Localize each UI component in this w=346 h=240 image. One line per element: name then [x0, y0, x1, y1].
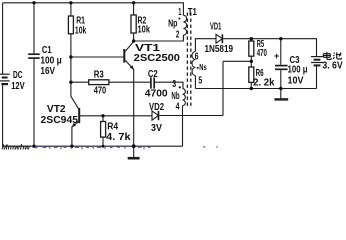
wire R5 R6 junction [250, 56, 252, 67]
transformer T1 winding Ns [192, 52, 195, 76]
svg-text:VD2: VD2 [149, 102, 164, 113]
label battery chinese 电池 [323, 52, 341, 60]
node dots [32, 1, 282, 148]
svg-text:VD1: VD1 [210, 22, 222, 33]
svg-text:Ns: Ns [199, 63, 207, 72]
svg-text:1: 1 [178, 7, 181, 18]
wire bottom rail [3, 145, 183, 147]
ground at C3 [274, 89, 288, 100]
diode VD2 [152, 111, 159, 120]
svg-text:5: 5 [198, 76, 202, 87]
capacitor C2 [151, 77, 154, 88]
wire VT2 base [80, 115, 152, 117]
wire R3 to C2 [109, 81, 150, 83]
wire R5 top lead [250, 39, 252, 41]
wire Ns pin6 to VD1 [195, 39, 216, 52]
svg-text:3. 6V: 3. 6V [322, 60, 343, 71]
wire VT1 base [71, 56, 124, 58]
transistor VT1 [124, 42, 134, 70]
svg-text:4700: 4700 [145, 89, 168, 100]
svg-text:2SC2500: 2SC2500 [134, 53, 181, 64]
battery cell output plates [311, 57, 323, 66]
svg-text:12V: 12V [11, 81, 25, 92]
svg-text:Mmwhw: Mmwhw [2, 142, 32, 151]
wire R6 bottom lead [250, 82, 252, 88]
svg-text:2. 2k: 2. 2k [253, 77, 275, 88]
ground main [128, 146, 140, 158]
wire R1 bottom to VT2 collector node [70, 34, 72, 97]
wire Ns pin5 down [194, 76, 196, 89]
svg-text:C2: C2 [148, 69, 158, 80]
wire R4 top lead [102, 116, 104, 122]
transformer T1 winding Nb [183, 89, 186, 106]
wire left border upper [2, 3, 4, 74]
resistor R4 [101, 122, 106, 138]
svg-text:Nb: Nb [171, 91, 179, 102]
resistor R6 [249, 67, 254, 82]
phase dot Ns [197, 67, 199, 69]
wire divider tap horizontal [223, 60, 251, 62]
wire Nb pin4 down to ground rail [182, 106, 184, 147]
wire C1 bottom lead [33, 59, 35, 146]
svg-text:16V: 16V [40, 66, 55, 77]
svg-text:VT2: VT2 [47, 104, 66, 115]
wire R2 top lead [133, 3, 135, 15]
wire R4 bottom lead [102, 137, 104, 146]
wire C1 top lead [33, 3, 35, 54]
phase dot Np [178, 18, 180, 20]
svg-text:R4: R4 [107, 122, 118, 133]
svg-text:10V: 10V [288, 76, 304, 87]
wire top rail [3, 3, 184, 16]
wire C3 top lead [280, 39, 282, 65]
svg-text:10k: 10k [138, 25, 151, 36]
wire R1 top lead [70, 3, 72, 16]
svg-text:4: 4 [176, 102, 180, 113]
svg-text:100 μ: 100 μ [288, 65, 308, 76]
svg-text:T1: T1 [188, 7, 197, 18]
diode VD1 [216, 34, 222, 43]
resistor R1 [68, 16, 73, 34]
wire secondary bottom rail [195, 88, 316, 90]
svg-text:1N5819: 1N5819 [205, 44, 234, 55]
svg-text:470: 470 [94, 86, 107, 97]
svg-text:R3: R3 [94, 69, 104, 80]
battery GB DC source plates [0, 74, 10, 84]
wire R2 bottom lead [133, 33, 135, 41]
wire Np pin2 to VT1 collector [134, 35, 184, 41]
svg-text:Np: Np [168, 19, 177, 30]
wire divider tap vertical [222, 61, 224, 115]
transformer core [187, 13, 190, 107]
wire battery bottom lead [316, 66, 318, 88]
svg-text:3V: 3V [151, 123, 162, 134]
wire C2 to Nb pin3 [155, 82, 183, 88]
svg-text:2SC945: 2SC945 [41, 115, 79, 126]
wire VT2 emitter down [71, 127, 73, 147]
svg-text:+: + [274, 51, 279, 61]
capacitor C1 [28, 54, 40, 58]
transistor VT2 [71, 96, 79, 127]
svg-text:4. 7k: 4. 7k [106, 132, 131, 143]
phase dot Nb [179, 86, 181, 88]
svg-text:10k: 10k [75, 25, 87, 36]
svg-text:3: 3 [172, 79, 176, 90]
svg-text:2: 2 [176, 29, 180, 40]
svg-text:6: 6 [195, 52, 199, 63]
wire VD1 cathode to output top [223, 39, 316, 56]
resistor R2 [131, 15, 136, 33]
svg-text:100 μ: 100 μ [40, 55, 61, 66]
wire C3 bottom lead [280, 70, 282, 88]
capacitor C3 [275, 66, 288, 70]
wire R3 left lead [71, 81, 89, 83]
resistor R3 [89, 80, 109, 85]
wire VD2 cathode to corner [159, 115, 223, 117]
transformer T1 winding Np [183, 15, 186, 35]
svg-text:DC: DC [13, 70, 23, 81]
wire VT1 emitter down [133, 69, 135, 146]
svg-text:470: 470 [257, 48, 267, 59]
resistor R5 [249, 41, 254, 56]
watermark blue dashes [35, 146, 219, 150]
watermark blue text [2, 142, 32, 151]
wire left border lower [2, 85, 4, 146]
